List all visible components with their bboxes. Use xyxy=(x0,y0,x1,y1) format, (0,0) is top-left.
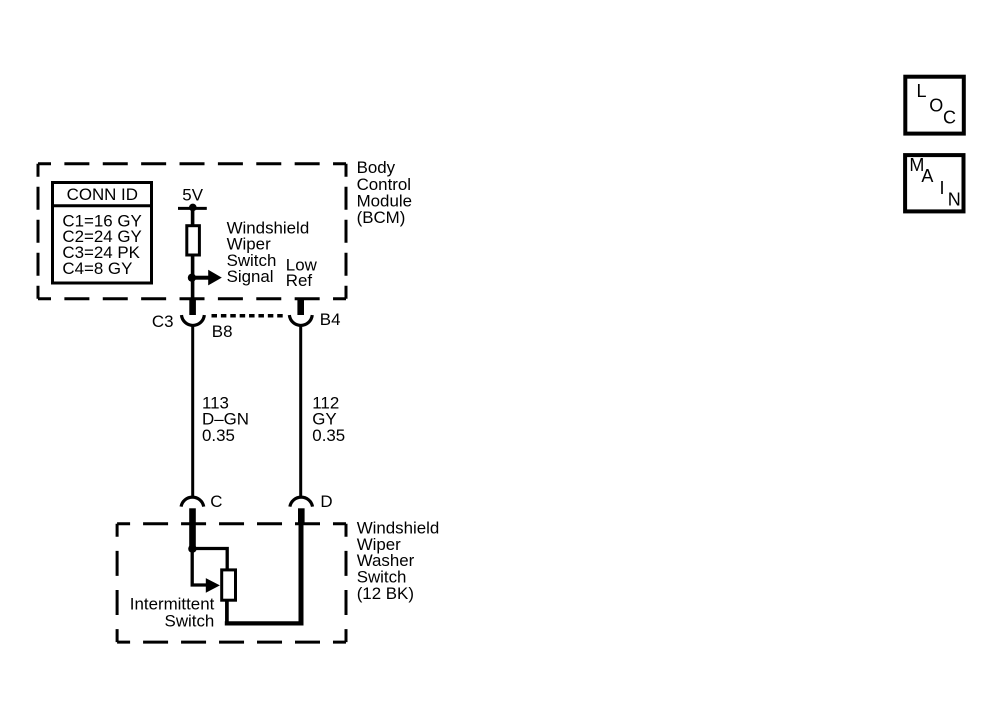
label: Windshield Wiper Switch Signal xyxy=(227,218,310,286)
wire 5V bar to resistor xyxy=(191,208,195,226)
svg-text:(12 BK): (12 BK) xyxy=(357,584,414,603)
pull-up resistor in BCM xyxy=(187,226,200,255)
connector terminal C3 (cup) xyxy=(181,315,204,325)
connector terminal D (cap) xyxy=(290,497,313,506)
CONN ID table xyxy=(51,183,153,284)
svg-text:C: C xyxy=(210,492,222,511)
label: Body Control Module (BCM) xyxy=(357,158,412,227)
connector terminal C (cap) xyxy=(181,497,204,506)
label: Windshield Wiper Washer Switch (12 BK) xyxy=(357,519,440,603)
connector pin stub C3 xyxy=(189,298,196,315)
svg-text:C: C xyxy=(943,108,956,128)
svg-text:B8: B8 xyxy=(212,322,233,341)
connector pin stub C xyxy=(189,508,196,549)
5V supply bar xyxy=(178,207,207,210)
svg-text:B4: B4 xyxy=(320,310,341,329)
intermittent switch resistor xyxy=(222,570,236,600)
svg-text:A: A xyxy=(921,166,933,186)
signal arrow xyxy=(193,270,222,286)
svg-text:Ref: Ref xyxy=(286,271,313,290)
wire resistor bottom to D xyxy=(225,600,229,623)
wire 112 GY 0.35 xyxy=(299,325,302,496)
svg-text:CONN ID: CONN ID xyxy=(67,185,138,204)
Windshield Wiper Washer Switch dashed enclosure xyxy=(117,524,346,642)
svg-text:I: I xyxy=(940,178,945,198)
node dot at 5V bar xyxy=(189,204,197,212)
label: Low Ref xyxy=(286,256,318,291)
wire 113 D-GN 0.35 xyxy=(191,325,194,496)
wiper arm wire xyxy=(192,549,206,585)
svg-text:Switch: Switch xyxy=(165,612,215,631)
junction node dot (signal tap) xyxy=(188,274,196,282)
wiper arm arrowhead xyxy=(206,578,220,593)
svg-text:Signal: Signal xyxy=(227,267,274,286)
svg-text:C3: C3 xyxy=(152,312,174,331)
svg-text:D: D xyxy=(320,492,332,511)
svg-text:O: O xyxy=(929,96,943,116)
svg-text:N: N xyxy=(948,190,961,210)
LOC reference box xyxy=(905,77,964,134)
wire resistor to connector C3 xyxy=(191,255,195,299)
Body Control Module (BCM) dashed enclosure xyxy=(38,164,346,299)
svg-text:(BCM): (BCM) xyxy=(357,208,406,227)
svg-text:C4=8 GY: C4=8 GY xyxy=(62,259,132,278)
svg-text:0.35: 0.35 xyxy=(202,426,235,445)
MAIN reference box xyxy=(905,155,963,212)
svg-text:0.35: 0.35 xyxy=(312,426,345,445)
label: Intermittent Switch xyxy=(130,595,215,631)
wire junction to resistor top xyxy=(192,549,227,571)
dotted connector tie line B8-B4 xyxy=(212,314,283,318)
connector terminal B4 (cup) xyxy=(289,315,312,325)
svg-text:L: L xyxy=(917,81,927,101)
connector pin stub D xyxy=(298,508,305,524)
svg-text:5V: 5V xyxy=(182,186,203,205)
junction node dot inside switch xyxy=(188,545,196,553)
connector pin stub B4 xyxy=(297,298,304,315)
